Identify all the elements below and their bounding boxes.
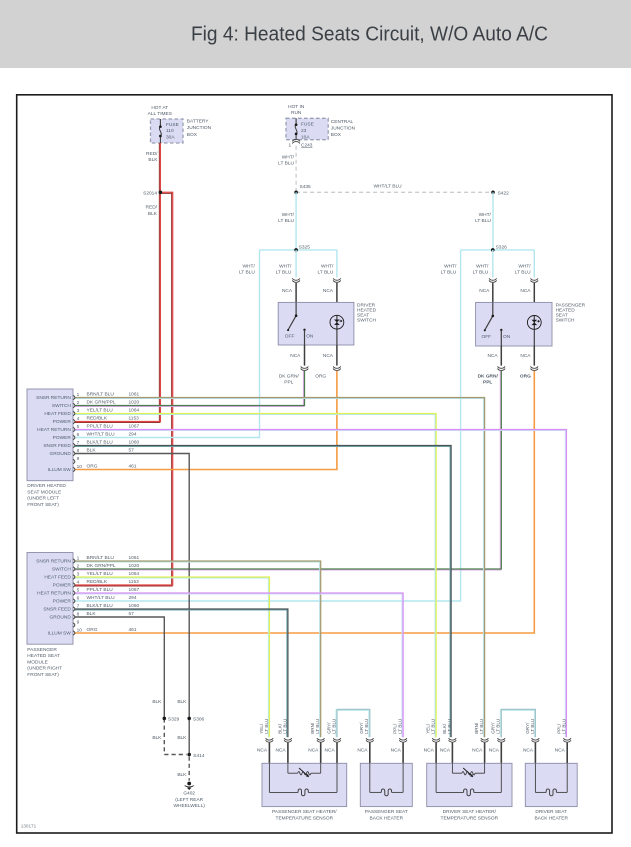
svg-text:POWER: POWER [53, 435, 72, 441]
svg-text:ILLUM SW: ILLUM SW [48, 467, 72, 473]
svg-text:Fig 4: Heated Seats Circuit, W: Fig 4: Heated Seats Circuit, W/O Auto A/… [191, 24, 548, 46]
svg-text:RED/BLK: RED/BLK [87, 579, 108, 585]
svg-text:SEAT MODULE: SEAT MODULE [27, 489, 61, 495]
svg-text:SWITCH: SWITCH [52, 567, 71, 573]
svg-text:130171: 130171 [21, 824, 37, 829]
svg-text:PASSENGER: PASSENGER [556, 302, 586, 308]
svg-text:2: 2 [77, 563, 80, 569]
svg-text:1067: 1067 [129, 424, 140, 430]
svg-text:NCA: NCA [391, 747, 402, 753]
svg-text:JUNCTION: JUNCTION [187, 125, 212, 131]
svg-text:LT BLU: LT BLU [278, 161, 294, 167]
connector C243 cup [292, 139, 300, 143]
wire WHT/LT BLU S422 to S326 [492, 192, 494, 250]
svg-text:SNSR RETURN: SNSR RETURN [36, 395, 71, 401]
wire WHT/LT BLU to driver switch lamp [336, 250, 338, 278]
svg-text:NCA: NCA [308, 747, 319, 753]
wire RED/BLK branch S2014 to passenger module pin4 [75, 192, 173, 586]
svg-text:LT BLU: LT BLU [276, 270, 292, 276]
svg-text:DRIVER: DRIVER [357, 302, 376, 308]
wire DK GRN/PPL driver switch to driver module pin2 [75, 371, 305, 407]
svg-text:LT BLU: LT BLU [398, 719, 403, 734]
svg-text:LT BLU: LT BLU [447, 719, 452, 734]
svg-text:1: 1 [77, 392, 80, 398]
svg-text:1153: 1153 [129, 579, 140, 585]
svg-text:RED/BLK: RED/BLK [87, 416, 108, 422]
svg-text:8: 8 [77, 611, 80, 617]
svg-text:(LEFT REAR: (LEFT REAR [175, 797, 203, 803]
svg-text:PPL: PPL [284, 380, 293, 386]
svg-text:TEMPERATURE SENSOR: TEMPERATURE SENSOR [441, 815, 499, 821]
svg-text:1061: 1061 [129, 392, 140, 398]
wire stub passenger switch out [500, 346, 502, 366]
svg-text:OFF: OFF [285, 334, 295, 340]
svg-text:BLK: BLK [87, 611, 97, 617]
svg-text:57: 57 [129, 448, 135, 454]
driver heated seat module box [27, 389, 73, 481]
svg-text:NCA: NCA [290, 353, 301, 359]
svg-text:NCA: NCA [424, 747, 435, 753]
svg-text:NCA: NCA [275, 747, 286, 753]
svg-text:HEATED SEAT: HEATED SEAT [27, 653, 60, 659]
svg-text:LT BLU: LT BLU [264, 719, 269, 734]
svg-text:HEAT RETURN: HEAT RETURN [37, 591, 71, 597]
svg-text:DK GRN/: DK GRN/ [279, 373, 300, 379]
node S306 [187, 717, 191, 721]
svg-text:ILLUM SW: ILLUM SW [48, 631, 72, 637]
connector cup passenger switch out [498, 366, 506, 370]
svg-text:LT BLU: LT BLU [475, 218, 491, 224]
svg-text:JUNCTION: JUNCTION [331, 126, 356, 132]
svg-text:NCA: NCA [520, 288, 531, 294]
connector cup passenger lamp out [531, 366, 539, 370]
svg-text:WHT/: WHT/ [321, 263, 334, 269]
svg-text:HEAT FEED: HEAT FEED [44, 575, 71, 581]
svg-text:WHT/: WHT/ [279, 263, 292, 269]
svg-text:BLK/LT BLU: BLK/LT BLU [87, 440, 114, 446]
svg-text:FRONT SEAT): FRONT SEAT) [27, 672, 59, 678]
svg-text:6: 6 [77, 432, 80, 438]
svg-text:7: 7 [77, 440, 80, 446]
svg-text:S414: S414 [193, 753, 205, 759]
svg-text:SNSR FEED: SNSR FEED [43, 443, 71, 449]
wire GRY/LT BLU driver seat jumper [500, 709, 535, 737]
svg-text:PASSENGER SEAT HEATER/: PASSENGER SEAT HEATER/ [272, 809, 337, 815]
svg-text:BACK HEATER: BACK HEATER [534, 815, 568, 821]
node S325 [294, 248, 298, 252]
svg-text:S325: S325 [299, 244, 311, 250]
connector cup driver lamp out [333, 366, 341, 370]
wire stub passenger lamp out [533, 346, 535, 366]
passenger switch indicator lamp [533, 316, 535, 347]
svg-text:OFF: OFF [482, 334, 492, 340]
svg-text:NCA: NCA [479, 288, 490, 294]
svg-text:6: 6 [77, 595, 80, 601]
bottom connector cups [266, 738, 274, 742]
svg-text:LT BLU: LT BLU [441, 270, 457, 276]
svg-text:1064: 1064 [129, 571, 140, 577]
driver heated seat switch box [278, 302, 354, 345]
svg-text:S329: S329 [168, 717, 180, 723]
node S326 [491, 248, 495, 252]
svg-text:LT BLU: LT BLU [364, 719, 369, 734]
svg-text:WHT/LT BLU: WHT/LT BLU [374, 184, 403, 190]
svg-text:WHT/: WHT/ [282, 154, 295, 160]
svg-text:BATTERY: BATTERY [187, 119, 209, 125]
svg-text:S306: S306 [193, 717, 205, 723]
svg-text:ORG: ORG [87, 627, 98, 633]
svg-text:110: 110 [166, 128, 174, 134]
svg-text:1: 1 [77, 555, 80, 561]
svg-text:YEL/LT BLU: YEL/LT BLU [87, 571, 114, 577]
svg-text:1061: 1061 [129, 555, 140, 561]
svg-text:RUN: RUN [291, 110, 302, 116]
wire WHT/LT BLU left branch to driver module pin6 [75, 250, 260, 438]
wire WHT/LT BLU to passenger switch input [492, 250, 494, 278]
wire DK GRN/PPL passenger switch to passenger module pin2 [75, 371, 501, 570]
svg-text:ON: ON [503, 334, 511, 340]
svg-text:LT BLU: LT BLU [317, 270, 333, 276]
svg-text:POWER: POWER [53, 419, 72, 425]
wire WHT/LT BLU left branch to passenger module pin6 [75, 250, 461, 601]
node S414 [187, 753, 191, 757]
driver switch symbol [295, 302, 297, 315]
svg-text:WHEELWELL): WHEELWELL) [174, 803, 206, 809]
svg-text:WHT/: WHT/ [476, 263, 489, 269]
connector cup driver switch out [301, 366, 309, 370]
svg-text:BLK: BLK [177, 772, 187, 778]
svg-text:ON: ON [306, 334, 314, 340]
svg-text:BRN/LT BLU: BRN/LT BLU [87, 555, 115, 561]
svg-text:ORG: ORG [315, 373, 326, 379]
svg-text:LT BLU: LT BLU [315, 719, 320, 734]
svg-text:BOX: BOX [187, 132, 198, 138]
svg-text:WHT/: WHT/ [282, 212, 295, 218]
svg-text:YEL/LT BLU: YEL/LT BLU [87, 408, 114, 414]
svg-text:FUSE: FUSE [166, 122, 179, 128]
svg-text:(UNDER RIGHT: (UNDER RIGHT [27, 666, 62, 672]
wire GRY/LT BLU passenger seat jumper [336, 709, 370, 737]
svg-text:LT BLU: LT BLU [562, 719, 567, 734]
svg-text:GROUND: GROUND [49, 451, 71, 457]
wire YEL/LT BLU passenger module pin3 to passenger temp sensor [75, 577, 269, 737]
wire WHT/LT BLU to passenger switch lamp [533, 250, 535, 278]
svg-text:9: 9 [77, 456, 80, 462]
svg-text:NCA: NCA [523, 747, 534, 753]
svg-text:DRIVER SEAT: DRIVER SEAT [535, 809, 567, 815]
svg-text:NCA: NCA [323, 353, 334, 359]
node S2014 [159, 191, 163, 195]
svg-text:DRIVER SEAT HEATER/: DRIVER SEAT HEATER/ [443, 809, 497, 815]
wire dashed grey fuse23 to S435 [295, 146, 297, 193]
svg-text:SWITCH: SWITCH [357, 318, 376, 324]
svg-text:SNSR RETURN: SNSR RETURN [36, 559, 71, 565]
svg-text:PPL/LT BLU: PPL/LT BLU [87, 587, 114, 593]
svg-text:294: 294 [129, 595, 137, 601]
svg-text:HEAT RETURN: HEAT RETURN [37, 427, 71, 433]
svg-text:SEAT: SEAT [556, 313, 568, 319]
svg-text:LT BLU: LT BLU [496, 719, 501, 734]
svg-text:LT BLU: LT BLU [331, 719, 336, 734]
svg-text:1020: 1020 [129, 400, 140, 406]
svg-text:S326: S326 [496, 244, 508, 250]
wire BLK driver module pin8 to S306 S414 [75, 454, 189, 755]
svg-text:461: 461 [129, 464, 137, 470]
svg-text:G402: G402 [183, 791, 195, 797]
svg-text:LT BLU: LT BLU [282, 719, 287, 734]
svg-text:SWITCH: SWITCH [556, 318, 575, 324]
passenger seat back heater box [360, 763, 412, 806]
fuse F23 element [295, 118, 297, 124]
header band [0, 0, 631, 68]
svg-text:NCA: NCA [257, 747, 268, 753]
svg-text:HEATED: HEATED [556, 308, 576, 314]
wire ORG driver switch to driver module pin10 [75, 371, 337, 470]
svg-text:10A: 10A [301, 134, 310, 140]
svg-text:5: 5 [77, 587, 80, 593]
svg-text:10: 10 [77, 627, 83, 633]
svg-text:PPL: PPL [483, 380, 492, 386]
svg-text:LT BLU: LT BLU [473, 270, 489, 276]
node S329 [163, 717, 167, 721]
wire stub driver lamp out [336, 345, 338, 366]
svg-text:BLK: BLK [177, 735, 187, 741]
svg-text:30A: 30A [166, 134, 175, 140]
svg-text:NCA: NCA [282, 288, 293, 294]
battery junction box (dashed) [151, 119, 184, 143]
wire dashed grey S435 to S422 [296, 191, 493, 193]
svg-text:8: 8 [77, 448, 80, 454]
svg-text:CENTRAL: CENTRAL [331, 119, 354, 125]
svg-text:1060: 1060 [129, 440, 140, 446]
svg-text:LT BLU: LT BLU [530, 719, 535, 734]
svg-text:1: 1 [289, 142, 292, 148]
wire RED/BLK fuse110 to S2014 to driver module pin4 [75, 143, 160, 423]
svg-text:WHT/: WHT/ [518, 263, 531, 269]
svg-text:NCA: NCA [357, 747, 368, 753]
svg-text:NCA: NCA [489, 747, 500, 753]
wire YEL/LT BLU driver module pin3 to driver temp sensor [75, 414, 436, 738]
passenger heated seat switch box [476, 302, 552, 346]
connector cup driver switch input [292, 278, 300, 282]
wire BLK dashed S329 to S414 [163, 718, 165, 754]
wire BLK/LT BLU driver module pin7 to driver temp sensor [75, 446, 451, 738]
node S435 [294, 191, 298, 195]
svg-text:SWITCH: SWITCH [52, 403, 71, 409]
wire BLK/LT BLU passenger module pin7 to passenger temp sensor [75, 609, 288, 737]
connector cup passenger switch input [489, 278, 497, 282]
svg-text:S435: S435 [300, 184, 312, 190]
node S422 [491, 191, 495, 195]
svg-text:C243: C243 [301, 142, 313, 148]
svg-text:BLK: BLK [87, 448, 97, 454]
svg-text:9: 9 [77, 619, 80, 625]
wire WHT/LT BLU splitter bar driver [260, 249, 337, 251]
svg-text:POWER: POWER [53, 583, 72, 589]
svg-text:DRIVER HEATED: DRIVER HEATED [27, 483, 66, 489]
svg-text:FRONT SEAT): FRONT SEAT) [27, 502, 59, 508]
svg-text:ORG: ORG [87, 464, 98, 470]
svg-text:DK GRN/PPL: DK GRN/PPL [87, 400, 116, 406]
svg-text:23: 23 [301, 128, 307, 134]
svg-text:PASSENGER: PASSENGER [27, 647, 57, 653]
passenger heated seat module box [27, 553, 73, 645]
wire stub into passenger switch lamp [533, 283, 535, 316]
svg-text:4: 4 [77, 416, 80, 422]
svg-text:WHT/: WHT/ [243, 263, 256, 269]
wire BLK passenger module pin8 to S329 [75, 617, 164, 718]
svg-text:ALL TIMES: ALL TIMES [148, 111, 172, 117]
svg-text:WHT/LT BLU: WHT/LT BLU [87, 432, 116, 438]
svg-text:NCA: NCA [472, 747, 483, 753]
svg-text:ORG: ORG [520, 373, 531, 379]
svg-text:NCA: NCA [520, 353, 531, 359]
wire stub driver switch out [304, 345, 306, 366]
svg-text:(UNDER LEFT: (UNDER LEFT [27, 496, 59, 502]
svg-text:TEMPERATURE SENSOR: TEMPERATURE SENSOR [276, 815, 334, 821]
svg-text:294: 294 [129, 432, 137, 438]
wire stub into driver switch lamp [336, 283, 338, 316]
svg-text:4: 4 [77, 579, 80, 585]
svg-text:WHT/: WHT/ [479, 212, 492, 218]
svg-text:BLK: BLK [148, 157, 158, 163]
svg-text:LT BLU: LT BLU [278, 218, 294, 224]
svg-text:LT BLU: LT BLU [479, 719, 484, 734]
bottom connector stubs [268, 743, 270, 764]
svg-text:LT BLU: LT BLU [239, 270, 255, 276]
wire WHT/LT BLU to driver switch input [295, 250, 297, 278]
svg-text:DK GRN/: DK GRN/ [478, 373, 499, 379]
driver seat back heater box [525, 763, 577, 806]
wire stub into passenger switch input [492, 283, 494, 316]
wire BRN/LT BLU driver module pin1 to driver temp sensor [75, 398, 485, 738]
central junction box (dashed) [286, 118, 328, 139]
connector cup passenger switch lamp [531, 278, 539, 282]
svg-text:NCA: NCA [440, 747, 451, 753]
svg-text:WHT/: WHT/ [444, 263, 457, 269]
svg-text:NCA: NCA [323, 288, 334, 294]
svg-text:S2014: S2014 [143, 190, 157, 196]
svg-text:LT BLU: LT BLU [431, 719, 436, 734]
svg-text:BLK: BLK [177, 699, 187, 705]
svg-text:FUSE: FUSE [301, 122, 314, 128]
svg-text:HOT IN: HOT IN [288, 104, 305, 110]
svg-text:1064: 1064 [129, 408, 140, 414]
svg-text:2: 2 [77, 400, 80, 406]
wire ORG passenger switch to passenger module pin10 [75, 371, 534, 633]
svg-text:PASSENGER SEAT: PASSENGER SEAT [365, 809, 408, 815]
wire PPL/LT BLU passenger module pin5 to passenger back heater [75, 593, 403, 737]
svg-text:RED/: RED/ [146, 205, 158, 211]
svg-text:1153: 1153 [129, 416, 140, 422]
svg-text:MODULE: MODULE [27, 659, 48, 665]
passenger switch symbol [492, 302, 494, 316]
connector cup driver switch lamp [333, 278, 341, 282]
svg-text:BLK/LT BLU: BLK/LT BLU [87, 603, 114, 609]
svg-text:BLK: BLK [152, 699, 162, 705]
driver switch indicator lamp [336, 315, 338, 345]
svg-text:5: 5 [77, 424, 80, 430]
svg-text:LT BLU: LT BLU [515, 270, 531, 276]
svg-text:BACK HEATER: BACK HEATER [370, 815, 404, 821]
svg-text:NCA: NCA [555, 747, 566, 753]
wire BLK dashed S414 to G402 [188, 757, 190, 781]
svg-text:7: 7 [77, 603, 80, 609]
wire stub into driver switch input [295, 283, 297, 316]
svg-text:GROUND: GROUND [49, 615, 71, 621]
svg-text:NCA: NCA [325, 747, 336, 753]
svg-text:BRN/LT BLU: BRN/LT BLU [87, 392, 115, 398]
svg-text:PPL/LT BLU: PPL/LT BLU [87, 424, 114, 430]
svg-text:HEAT FEED: HEAT FEED [44, 411, 71, 417]
wire WHT/LT BLU splitter bar passenger [461, 249, 535, 251]
ground G402 symbol [187, 782, 191, 786]
svg-text:POWER: POWER [53, 599, 72, 605]
svg-text:BOX: BOX [331, 132, 342, 138]
svg-text:WHT/LT BLU: WHT/LT BLU [87, 595, 116, 601]
svg-text:1060: 1060 [129, 603, 140, 609]
driver seat heater/temperature sensor box [427, 763, 512, 806]
passenger seat heater/temperature sensor box [262, 763, 347, 806]
wire WHT/LT BLU S435 to S325 [295, 192, 297, 250]
svg-text:SNSR FEED: SNSR FEED [43, 607, 71, 613]
svg-text:57: 57 [129, 611, 135, 617]
svg-text:461: 461 [129, 627, 137, 633]
svg-text:HEATED: HEATED [357, 308, 377, 314]
wire PPL/LT BLU driver module pin5 to driver back heater [75, 430, 566, 738]
svg-text:3: 3 [77, 571, 80, 577]
svg-text:1067: 1067 [129, 587, 140, 593]
svg-text:HOT AT: HOT AT [151, 105, 168, 111]
svg-text:DK GRN/PPL: DK GRN/PPL [87, 563, 116, 569]
svg-text:1020: 1020 [129, 563, 140, 569]
svg-text:10: 10 [77, 464, 83, 470]
svg-text:RED/: RED/ [146, 151, 158, 157]
svg-text:NCA: NCA [487, 353, 498, 359]
svg-text:BLK: BLK [148, 211, 158, 217]
svg-text:SEAT: SEAT [357, 313, 369, 319]
fuse F110 element [159, 119, 161, 127]
svg-text:BLK: BLK [152, 735, 162, 741]
wire BRN/LT BLU passenger module pin1 to passenger temp sensor [75, 561, 321, 737]
svg-text:S422: S422 [498, 190, 510, 196]
svg-text:3: 3 [77, 408, 80, 414]
